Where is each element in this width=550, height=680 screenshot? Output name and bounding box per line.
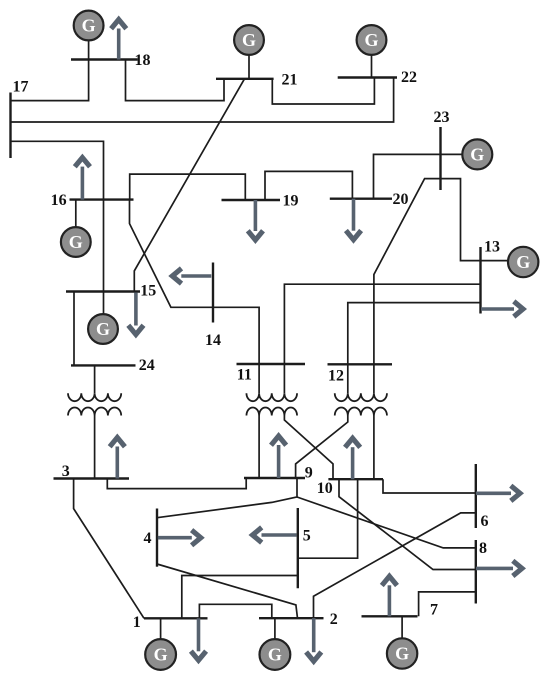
svg-text:G: G	[395, 644, 409, 664]
generator G22	[357, 25, 387, 77]
bus 1 bar	[144, 617, 208, 619]
wire transformer 11 to bus 10	[284, 416, 333, 480]
wire transformer lead 24-3 lower	[94, 416, 96, 479]
bus 23 bar	[439, 127, 441, 190]
load arrow at bus 13	[481, 301, 523, 316]
generator G7	[387, 616, 417, 668]
bus 19 bar	[222, 199, 281, 201]
wire line 4-9	[157, 478, 297, 518]
svg-text:3: 3	[62, 463, 70, 480]
wire line 1-2	[199, 604, 271, 618]
svg-text:23: 23	[434, 109, 450, 126]
bus 9 bar	[244, 477, 305, 479]
wire transformer 12 to bus 10	[373, 416, 375, 480]
svg-text:G: G	[470, 145, 484, 165]
wire line 15-16	[103, 200, 105, 291]
bus 10 bar	[328, 478, 383, 480]
transformer T1 (24-3)	[68, 393, 121, 415]
generator G21	[234, 25, 264, 79]
wire line 16-14	[130, 200, 214, 308]
wire line 7-8	[419, 592, 476, 616]
bus 2 bar	[259, 617, 324, 619]
svg-text:G: G	[516, 252, 530, 272]
bus 7 bar	[362, 615, 418, 617]
svg-text:G: G	[268, 645, 282, 665]
bus 17 bar	[9, 93, 11, 159]
generator G13	[508, 247, 538, 277]
wire line 1-3	[74, 479, 144, 619]
generator G15	[88, 292, 118, 344]
bus 22 bar	[338, 76, 397, 78]
svg-text:15: 15	[140, 283, 156, 300]
wire line 1-5	[182, 576, 298, 619]
bus 13 bar	[479, 247, 481, 314]
bus 12 bar	[328, 363, 393, 365]
svg-text:16: 16	[51, 192, 67, 209]
wire transformer lead 11 left upper	[258, 364, 260, 393]
svg-text:G: G	[364, 30, 378, 50]
bus 21 bar	[216, 78, 274, 80]
bus 20 bar	[330, 197, 392, 199]
svg-text:19: 19	[283, 193, 299, 210]
svg-text:14: 14	[205, 332, 221, 349]
svg-text:13: 13	[484, 239, 500, 256]
load arrow at bus 19	[248, 200, 263, 240]
generator G16	[61, 200, 91, 257]
wire transformer lead 11 right upper	[283, 364, 285, 393]
svg-text:2: 2	[330, 611, 338, 628]
load arrow at bus 18	[111, 20, 126, 60]
load arrow at bus 10	[345, 438, 360, 479]
load arrow at bus 20	[346, 199, 361, 240]
load arrow at bus 3	[110, 438, 125, 479]
svg-text:9: 9	[305, 464, 313, 481]
svg-text:11: 11	[237, 366, 252, 383]
wire transformer 12 to bus 9	[296, 416, 348, 479]
load arrow at bus 7	[382, 576, 397, 616]
wire transformer 11 to bus 9	[258, 416, 260, 479]
wire line 12-23	[374, 179, 441, 365]
load arrow at bus 15	[128, 293, 143, 335]
bus 14 bar	[212, 263, 214, 323]
load arrow at bus 14	[172, 268, 211, 283]
wire line 2-6	[314, 513, 476, 618]
svg-text:G: G	[96, 319, 110, 339]
wire line 21-22	[272, 78, 374, 105]
wire line 19-20	[265, 171, 352, 200]
wire line 15-21	[134, 79, 244, 291]
svg-text:4: 4	[144, 530, 152, 547]
svg-text:18: 18	[135, 52, 151, 69]
wire line 18-21	[126, 60, 225, 101]
wire line 8-10	[339, 479, 476, 569]
wire line 20-23	[374, 154, 441, 198]
bus 5 bar	[297, 508, 299, 588]
generator G18	[74, 11, 104, 60]
svg-text:6: 6	[481, 513, 489, 530]
load arrow at bus 4	[158, 530, 201, 545]
svg-text:24: 24	[139, 357, 155, 374]
bus 6 bar	[475, 464, 477, 528]
bus 4 bar	[156, 509, 158, 567]
svg-text:8: 8	[479, 540, 487, 557]
generator G23	[462, 139, 492, 169]
svg-text:12: 12	[328, 368, 344, 385]
wire line 12-13	[348, 303, 481, 365]
generator G1	[145, 618, 176, 670]
wire line 11-13	[284, 284, 480, 364]
transformer T2 (11-9/10)	[246, 393, 297, 415]
load arrow at bus 9	[271, 436, 286, 478]
svg-text:5: 5	[303, 528, 311, 545]
svg-text:G: G	[154, 645, 168, 665]
svg-text:7: 7	[430, 602, 438, 619]
wire line 5-10	[298, 479, 358, 558]
bus 16 bar	[70, 198, 134, 200]
wire line 17-18	[11, 60, 89, 101]
wire line 8-9	[297, 497, 476, 548]
bus 11 bar	[237, 363, 306, 365]
svg-text:G: G	[69, 232, 83, 252]
bus 18 bar	[71, 58, 138, 60]
svg-text:17: 17	[13, 79, 29, 96]
wire line 16-19	[130, 174, 246, 200]
load arrow at bus 6	[476, 486, 520, 501]
load arrow at bus 8	[476, 561, 522, 576]
bus 15 bar	[66, 290, 140, 292]
wire line 3-9	[107, 478, 246, 489]
wire line 2-4	[157, 564, 298, 618]
svg-text:1: 1	[133, 614, 141, 631]
load arrow at bus 16	[75, 158, 90, 200]
svg-text:21: 21	[282, 72, 298, 89]
load arrow at bus 2	[306, 618, 321, 661]
wire line 17-22	[11, 78, 394, 123]
wire transformer lead 12 right upper	[373, 364, 375, 393]
transformer T3 (12-9/10)	[335, 393, 387, 415]
wire transformer lead 24-3 upper	[94, 365, 96, 393]
wire generator stem 13	[481, 260, 509, 262]
svg-text:10: 10	[317, 480, 333, 497]
load arrow at bus 5	[253, 527, 297, 542]
wire transformer lead 12 left upper	[347, 364, 349, 393]
svg-text:G: G	[242, 30, 256, 50]
wire line 6-10	[383, 479, 476, 493]
svg-text:20: 20	[393, 191, 409, 208]
bus 8 bar	[475, 540, 477, 604]
wire line 13-23	[441, 179, 481, 261]
wire generator stem 23	[441, 153, 463, 155]
load arrow at bus 1	[191, 618, 206, 660]
bus 24 bar	[71, 364, 136, 366]
generator G2	[260, 618, 291, 670]
wire line 14-11	[213, 307, 259, 364]
wire line 16-17	[11, 141, 104, 199]
bus 3 bar	[54, 477, 130, 479]
wire line 15-24	[73, 292, 75, 366]
svg-text:22: 22	[401, 69, 417, 86]
svg-text:G: G	[82, 16, 96, 36]
